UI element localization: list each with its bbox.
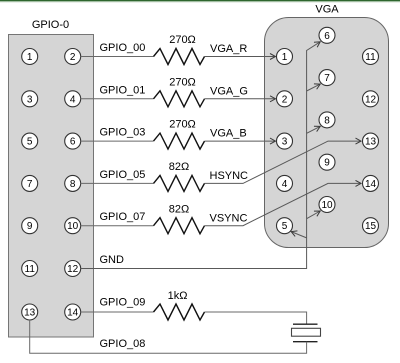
GPIO-0 pin 7 xyxy=(22,175,38,191)
wire GPIO_08 from pin 13 to piezo bottom lead xyxy=(30,320,307,353)
resistor 82&#937; (HSYNC) xyxy=(154,175,205,191)
svg-text:11: 11 xyxy=(25,264,36,275)
svg-text:8: 8 xyxy=(70,179,76,190)
wire VSYNC from resistor to VGA pin 14 with arrow xyxy=(205,183,362,225)
svg-text:1kΩ: 1kΩ xyxy=(168,290,188,302)
GPIO-0 pin 4 xyxy=(65,91,81,107)
resistor 1k&#937; (buzzer) xyxy=(154,304,205,320)
top green border bar xyxy=(0,0,400,3)
svg-text:13: 13 xyxy=(24,308,36,319)
resistor 270&#937; (green channel) xyxy=(154,91,205,107)
svg-text:GPIO_00: GPIO_00 xyxy=(100,42,146,54)
piezo buzzer element xyxy=(292,324,321,342)
svg-text:VSYNC: VSYNC xyxy=(210,212,248,224)
wire GND from pin 12 up to VGA pin 6 with arrow xyxy=(81,42,321,269)
VGA pin 9 xyxy=(319,154,335,170)
svg-text:VGA_R: VGA_R xyxy=(210,43,247,55)
wire VGA_R from resistor to VGA pin 1 with arrow xyxy=(205,56,276,58)
wire GPIO_03 from pin 6 to resistor xyxy=(81,140,154,142)
svg-text:10: 10 xyxy=(67,221,79,232)
svg-text:12: 12 xyxy=(67,264,79,275)
VGA pin 12 xyxy=(363,91,379,107)
GPIO-0 pin 14 xyxy=(65,304,81,320)
VGA pin 14 xyxy=(363,175,379,191)
svg-text:1: 1 xyxy=(282,52,288,63)
svg-text:82Ω: 82Ω xyxy=(169,161,189,173)
svg-text:3: 3 xyxy=(27,94,33,105)
VGA pin 6 xyxy=(319,27,335,43)
svg-text:6: 6 xyxy=(324,31,330,42)
VGA pin 5 xyxy=(277,218,293,234)
svg-text:GPIO_03: GPIO_03 xyxy=(100,127,146,139)
svg-text:2: 2 xyxy=(70,52,76,63)
VGA pin 8 xyxy=(319,112,335,128)
svg-text:3: 3 xyxy=(282,137,288,148)
GPIO-0 pin 8 xyxy=(65,175,81,191)
wire GND branch to VGA pin 5 with arrow xyxy=(291,232,306,238)
wire GPIO_09 from pin 14 to resistor xyxy=(81,311,154,313)
wire GND branch to VGA pin 8 with arrow xyxy=(307,126,321,133)
wire GPIO_05 from pin 8 to resistor xyxy=(81,182,154,184)
GPIO-0 pin 5 xyxy=(22,133,38,149)
svg-text:14: 14 xyxy=(365,179,377,190)
svg-text:4: 4 xyxy=(70,94,76,105)
svg-text:VGA: VGA xyxy=(315,4,339,16)
connector GPIO-0 body xyxy=(9,35,94,338)
wire GND branch to VGA pin 10 with arrow xyxy=(307,211,321,219)
GPIO-0 pin 9 xyxy=(22,218,38,234)
svg-text:GPIO_05: GPIO_05 xyxy=(100,169,146,181)
GPIO-0 pin 11 xyxy=(22,261,38,277)
svg-text:VGA_B: VGA_B xyxy=(210,128,247,140)
VGA pin 7 xyxy=(319,70,335,86)
GPIO-0 pin 2 xyxy=(65,49,81,65)
wire VGA_G from resistor to VGA pin 2 with arrow xyxy=(205,98,276,100)
svg-text:HSYNC: HSYNC xyxy=(210,170,249,182)
svg-text:8: 8 xyxy=(324,115,330,126)
svg-text:5: 5 xyxy=(27,137,33,148)
wire GPIO_00 from pin 2 to resistor xyxy=(81,56,154,58)
wire GPIO_07 from pin 10 to resistor xyxy=(81,225,154,227)
GPIO-0 pin 6 xyxy=(65,133,81,149)
GPIO-0 pin 1 xyxy=(22,49,38,65)
connector VGA body xyxy=(265,18,389,248)
VGA pin 1 xyxy=(277,49,293,65)
GPIO-0 pin 3 xyxy=(22,91,38,107)
svg-text:2: 2 xyxy=(282,94,288,105)
svg-text:11: 11 xyxy=(365,52,376,63)
svg-text:GPIO-0: GPIO-0 xyxy=(32,19,69,31)
svg-text:GPIO_09: GPIO_09 xyxy=(100,297,146,309)
svg-text:6: 6 xyxy=(70,137,76,148)
resistor 82&#937; (VSYNC) xyxy=(154,218,205,234)
svg-text:13: 13 xyxy=(365,137,377,148)
wire HSYNC from resistor to VGA pin 13 with arrow xyxy=(205,141,362,183)
VGA pin 11 xyxy=(363,49,379,65)
svg-text:VGA_G: VGA_G xyxy=(210,85,248,97)
svg-text:GPIO_08: GPIO_08 xyxy=(100,338,146,350)
svg-text:4: 4 xyxy=(282,179,288,190)
svg-text:82Ω: 82Ω xyxy=(169,203,189,215)
svg-text:270Ω: 270Ω xyxy=(169,119,196,131)
svg-text:1: 1 xyxy=(27,52,33,63)
svg-text:10: 10 xyxy=(321,200,333,211)
VGA pin 13 xyxy=(363,133,379,149)
svg-text:270Ω: 270Ω xyxy=(169,34,196,46)
wire from resistor to piezo top lead xyxy=(205,312,307,324)
svg-text:14: 14 xyxy=(67,308,79,319)
svg-text:GPIO_07: GPIO_07 xyxy=(100,211,146,223)
svg-text:9: 9 xyxy=(27,221,33,232)
wire VGA_B from resistor to VGA pin 3 with arrow xyxy=(205,140,276,142)
VGA pin 4 xyxy=(277,175,293,191)
svg-text:270Ω: 270Ω xyxy=(169,76,196,88)
VGA pin 3 xyxy=(277,133,293,149)
svg-text:7: 7 xyxy=(27,179,33,190)
svg-text:9: 9 xyxy=(324,158,330,169)
VGA pin 15 xyxy=(363,218,379,234)
resistor 270&#937; (red channel) xyxy=(154,49,205,65)
resistor 270&#937; (blue channel) xyxy=(154,133,205,149)
svg-text:GPIO_01: GPIO_01 xyxy=(100,84,146,96)
VGA pin 10 xyxy=(319,197,335,213)
svg-text:5: 5 xyxy=(282,221,288,232)
svg-text:12: 12 xyxy=(365,94,377,105)
wire GND branch to VGA pin 7 with arrow xyxy=(307,84,321,91)
GPIO-0 pin 12 xyxy=(65,261,81,277)
wire GPIO_01 from pin 4 to resistor xyxy=(81,98,154,100)
svg-text:7: 7 xyxy=(324,73,330,84)
GPIO-0 pin 13 xyxy=(22,304,38,320)
svg-text:GND: GND xyxy=(100,254,125,266)
VGA pin 2 xyxy=(277,91,293,107)
svg-text:15: 15 xyxy=(365,221,377,232)
GPIO-0 pin 10 xyxy=(65,218,81,234)
